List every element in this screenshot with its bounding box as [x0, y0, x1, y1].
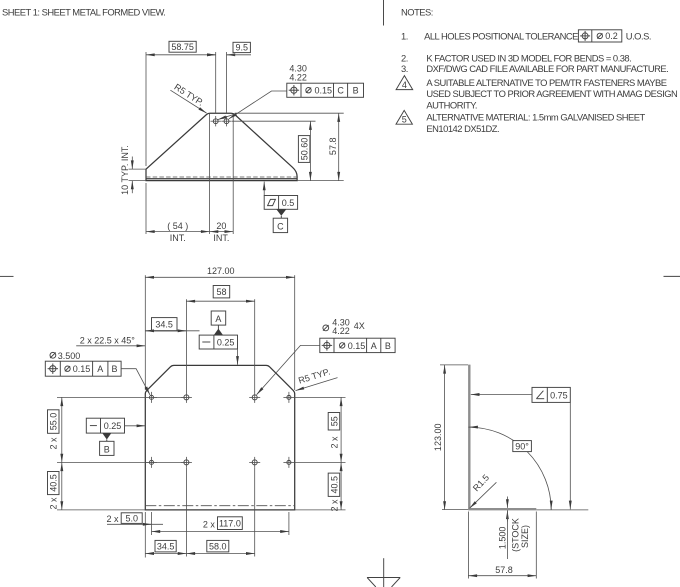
svg-text:3.500: 3.500 [58, 351, 81, 361]
svg-text:AUTHORITY.: AUTHORITY. [426, 100, 477, 111]
svg-text:B: B [353, 86, 359, 96]
svg-text:EN10142 DX51DZ.: EN10142 DX51DZ. [426, 123, 499, 134]
svg-text:10 TYP. INT.: 10 TYP. INT. [120, 145, 130, 195]
svg-text:4X: 4X [354, 321, 365, 331]
svg-text:0.15: 0.15 [348, 341, 366, 351]
svg-text:(STOCK: (STOCK [511, 518, 521, 552]
svg-text:( 54 ): ( 54 ) [167, 221, 188, 231]
svg-text:0.2: 0.2 [605, 31, 618, 41]
svg-text:2 x: 2 x [107, 514, 120, 524]
svg-text:0.5: 0.5 [282, 198, 295, 208]
svg-text:40.5: 40.5 [49, 474, 59, 492]
svg-text:A: A [97, 364, 103, 374]
svg-text:3.: 3. [401, 63, 408, 74]
svg-text:B: B [111, 364, 117, 374]
svg-text:0.15: 0.15 [315, 86, 333, 96]
svg-text:57.8: 57.8 [328, 138, 338, 156]
svg-text:K FACTOR USED IN 3D MODEL FOR: K FACTOR USED IN 3D MODEL FOR BENDS = 0.… [426, 53, 631, 64]
svg-text:2 x: 2 x [49, 497, 59, 510]
svg-text:1.500: 1.500 [498, 527, 508, 550]
svg-text:0.15: 0.15 [73, 364, 91, 374]
svg-text:NOTES:: NOTES: [401, 6, 433, 17]
svg-text:40.5: 40.5 [329, 476, 339, 494]
svg-text:ALL HOLES POSITIONAL TOLERANCE: ALL HOLES POSITIONAL TOLERANCE [424, 31, 578, 42]
svg-text:USED SUBJECT TO PRIOR AGREEMEN: USED SUBJECT TO PRIOR AGREEMENT WITH AMA… [426, 88, 677, 99]
svg-text:ALTERNATIVE MATERIAL: 1.5mm GA: ALTERNATIVE MATERIAL: 1.5mm GALVANISED S… [426, 111, 645, 122]
svg-text:55.0: 55.0 [49, 413, 59, 431]
svg-text:58: 58 [216, 287, 226, 297]
svg-text:58.0: 58.0 [209, 541, 227, 551]
svg-text:34.5: 34.5 [155, 320, 173, 330]
svg-text:2 x: 2 x [49, 437, 59, 450]
svg-text:127.00: 127.00 [207, 266, 235, 276]
svg-text:9.5: 9.5 [235, 43, 248, 53]
svg-text:34.5: 34.5 [157, 541, 175, 551]
svg-text:DXF/DWG CAD FILE AVAILABLE FOR: DXF/DWG CAD FILE AVAILABLE FOR PART MANU… [426, 63, 668, 74]
svg-text:2 x: 2 x [329, 499, 339, 512]
svg-text:50.60: 50.60 [300, 138, 310, 161]
svg-text:5.0: 5.0 [125, 513, 138, 523]
svg-text:A SUITABLE ALTERNATIVE TO PEM/: A SUITABLE ALTERNATIVE TO PEM/TR FASTENE… [426, 77, 666, 88]
svg-text:2 x 22.5 x 45°: 2 x 22.5 x 45° [80, 336, 136, 346]
svg-text:4.22: 4.22 [332, 326, 350, 336]
svg-text:A: A [215, 314, 221, 324]
svg-text:20: 20 [216, 221, 226, 231]
svg-text:INT.: INT. [213, 233, 229, 243]
svg-text:0.75: 0.75 [550, 391, 568, 401]
svg-text:U.O.S.: U.O.S. [626, 31, 651, 42]
svg-text:C: C [277, 222, 284, 232]
svg-text:B: B [104, 444, 110, 454]
svg-text:INT.: INT. [170, 233, 186, 243]
svg-text:A: A [371, 341, 377, 351]
svg-text:SHEET 1: SHEET METAL FORMED VI: SHEET 1: SHEET METAL FORMED VIEW. [2, 6, 165, 17]
svg-text:123.00: 123.00 [433, 424, 443, 452]
svg-text:B: B [385, 341, 391, 351]
svg-text:55: 55 [329, 416, 339, 426]
svg-text:2 x: 2 x [329, 436, 339, 449]
svg-text:2.: 2. [401, 53, 408, 64]
svg-text:0.25: 0.25 [217, 338, 235, 348]
svg-text:117.0: 117.0 [219, 518, 241, 528]
svg-text:57.8: 57.8 [495, 565, 513, 575]
svg-text:4: 4 [402, 80, 407, 90]
svg-text:C: C [337, 86, 344, 96]
svg-text:SIZE): SIZE) [520, 525, 530, 548]
svg-text:1.: 1. [401, 31, 408, 42]
svg-text:0.25: 0.25 [104, 421, 122, 431]
svg-text:2 x: 2 x [203, 519, 216, 529]
svg-text:4.22: 4.22 [289, 72, 307, 82]
svg-text:5: 5 [402, 114, 407, 124]
svg-text:90°: 90° [515, 442, 529, 452]
svg-text:58.75: 58.75 [171, 42, 194, 52]
